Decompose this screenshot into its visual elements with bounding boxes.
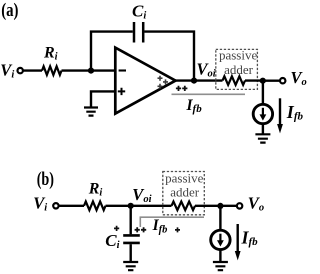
- plus marks inside op-amp apex: [158, 76, 169, 89]
- arrow Ifb (a): [279, 98, 281, 124]
- resistor Ri (a): [42, 66, 62, 75]
- output terminal Vo (a): [280, 78, 285, 83]
- op-amp plus sign: [118, 88, 125, 95]
- node Vo (a): [260, 78, 266, 84]
- current source Ifb (a): [253, 104, 272, 123]
- passive adder box (a): [216, 49, 258, 89]
- wire capacitor to output node: [144, 32, 194, 81]
- passive adder box (b): [163, 172, 205, 215]
- wire current source to ground (b): [219, 250, 221, 262]
- node junction dot A: [88, 68, 94, 74]
- ground G2: [255, 134, 270, 142]
- resistor Ri (b): [84, 202, 106, 211]
- capacitor Ci (b): [123, 234, 140, 237]
- wire Vi to Ri (b): [59, 205, 84, 207]
- input terminal (b): [53, 203, 58, 208]
- wire Ri to adder (b): [106, 205, 172, 207]
- svg-text:passive: passive: [219, 47, 258, 62]
- current source Ifb (b): [211, 230, 230, 249]
- plus-plus marks under output wire: [176, 86, 188, 91]
- wire adder to Vo terminal (b): [195, 205, 237, 207]
- wire node down to current source (b): [219, 206, 221, 230]
- plus mark above Ci: [114, 226, 119, 231]
- resistor in adder (b): [172, 202, 196, 211]
- ground G4: [213, 262, 228, 270]
- wire node down to capacitor (b): [129, 206, 131, 235]
- plus-plus marks right of capacitor (b): [135, 227, 147, 232]
- wire Ri to op-amp minus input: [62, 69, 116, 71]
- op-amp U1: [115, 48, 175, 114]
- plus mark after Ifb (b): [175, 227, 180, 232]
- ground G1: [84, 108, 98, 116]
- svg-text:(a): (a): [1, 1, 18, 21]
- wire adder to Vo node: [245, 79, 263, 81]
- wire current source to ground (a): [262, 124, 264, 134]
- ground G3: [123, 262, 138, 270]
- svg-text:(b): (b): [37, 170, 54, 190]
- node Vo (b): [217, 203, 223, 209]
- wire node to Vo terminal: [263, 79, 280, 81]
- gray bracket line Ifb (b): [140, 217, 204, 227]
- wire plus input to ground: [91, 91, 115, 107]
- arrow Ifb (b): [236, 224, 238, 252]
- wire Vi to Ri: [23, 69, 42, 71]
- capacitor Ci (a): [133, 22, 136, 43]
- wire node A up to capacitor: [91, 32, 133, 71]
- node Voi (a): [191, 78, 197, 84]
- svg-text:adder: adder: [224, 62, 254, 77]
- wire capacitor to ground (b): [129, 244, 131, 262]
- op-amp minus sign: [119, 69, 126, 71]
- gray underline Ifb (a): [172, 93, 246, 95]
- node Voi (b): [128, 203, 134, 209]
- svg-text:adder: adder: [170, 184, 200, 199]
- resistor in adder (a): [223, 76, 246, 85]
- wire node down to current source (a): [262, 81, 264, 105]
- wire op-amp output to adder: [176, 79, 223, 81]
- input terminal (a): [18, 68, 23, 73]
- output terminal Vo (b): [237, 203, 242, 208]
